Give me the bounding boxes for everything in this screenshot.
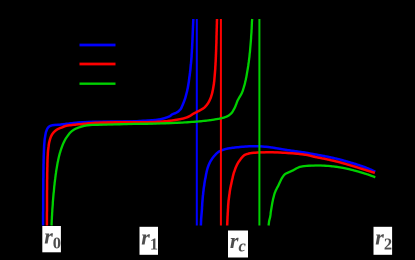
curve red left branch — [47, 19, 217, 226]
axis label r1 — [140, 224, 159, 255]
axis label r0 — [42, 224, 61, 253]
legend line green — [80, 82, 116, 84]
axis label r2 — [374, 224, 393, 255]
curve red right branch — [227, 152, 375, 225]
curve green left branch — [52, 19, 253, 226]
legend line red — [80, 63, 116, 66]
curve green right branch — [269, 166, 376, 226]
curve blue right branch — [201, 146, 375, 225]
axis label rc — [228, 228, 248, 258]
asymptote green vertical — [258, 19, 260, 226]
asymptote blue vertical — [196, 19, 198, 226]
curve blue left branch — [43, 19, 193, 226]
asymptote red vertical — [220, 19, 222, 226]
legend line blue — [80, 44, 116, 47]
